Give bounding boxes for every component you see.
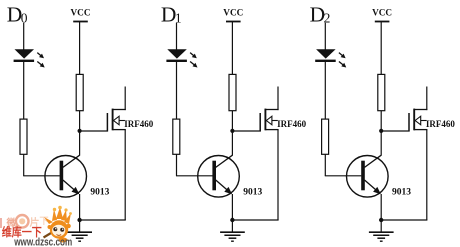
wire node A3 to Q3 collector xyxy=(380,131,382,156)
resistor (VCC branch) xyxy=(76,74,83,110)
svg-text:IRF460: IRF460 xyxy=(277,119,306,129)
svg-text:VCC: VCC xyxy=(71,7,91,17)
MOSFET IRF460 gate bar xyxy=(259,113,261,132)
node B2 junction dot xyxy=(230,218,234,222)
wire drain stub xyxy=(277,87,279,111)
wire resistor to Q3 base xyxy=(324,154,326,176)
svg-text:VCC: VCC xyxy=(372,7,392,17)
wire LED cathode to resistor xyxy=(324,62,326,119)
LED D2 xyxy=(316,49,336,58)
wire Q1 emitter to node B1 xyxy=(79,194,81,220)
MOSFET IRF460 gate bar xyxy=(106,113,108,132)
wire resistor to node A1 xyxy=(79,111,81,131)
node B1 junction dot xyxy=(77,218,81,222)
wire gate lead xyxy=(381,130,409,132)
wire source down xyxy=(277,130,279,220)
LED D1 xyxy=(167,49,187,58)
wire source down xyxy=(124,130,126,220)
Q2 emitter lead with arrow xyxy=(216,180,232,194)
wire source return to emitter node xyxy=(80,219,126,221)
wire D1 anode xyxy=(176,23,178,50)
MOSFET IRF460 channel bar xyxy=(112,109,114,131)
svg-text:IRF460: IRF460 xyxy=(124,119,153,129)
Q3 base bar xyxy=(361,161,365,191)
MOSFET source lead xyxy=(265,129,278,131)
resistor (VCC branch) xyxy=(378,74,385,110)
LED D0 xyxy=(15,49,35,58)
wire VCC to resistor xyxy=(79,22,81,75)
wire gate lead xyxy=(232,130,260,132)
wire Q2 emitter to node B2 xyxy=(231,194,233,220)
wire node A2 to Q2 collector xyxy=(231,131,233,156)
wire resistor to Q2 base xyxy=(176,154,178,176)
MOSFET IRF460 channel bar xyxy=(264,109,266,131)
MOSFET source lead xyxy=(414,129,427,131)
svg-text:IRF460: IRF460 xyxy=(426,119,455,129)
wire source return to emitter node xyxy=(232,219,278,221)
ground xyxy=(79,220,81,232)
transistor Q1 9013 body xyxy=(45,156,87,198)
watermark faint upper row xyxy=(0,215,49,230)
wire D2 anode xyxy=(324,23,326,50)
svg-text:9013: 9013 xyxy=(392,188,411,198)
MOSFET body arrow xyxy=(119,120,125,122)
wire node A1 to Q1 collector xyxy=(79,131,81,156)
wire LED cathode to resistor xyxy=(176,62,178,119)
svg-text:9013: 9013 xyxy=(90,188,109,198)
Q3 emitter lead with arrow xyxy=(365,180,381,194)
wire resistor to node A2 xyxy=(231,111,233,131)
MOSFET body arrow xyxy=(421,120,427,122)
MOSFET drain lead xyxy=(265,109,278,111)
LED D0 light emission arrows xyxy=(37,53,42,57)
Q1 collector lead xyxy=(63,155,80,167)
Q2 base bar xyxy=(212,161,216,191)
resistor (base branch) xyxy=(173,119,180,154)
MOSFET drain lead xyxy=(113,109,126,111)
wire resistor to Q1 base xyxy=(23,154,25,176)
MOSFET body arrow xyxy=(272,120,278,122)
wire gate lead xyxy=(80,130,108,132)
resistor (base branch) xyxy=(322,119,329,154)
transistor Q2 9013 body xyxy=(198,156,240,198)
svg-text:2: 2 xyxy=(324,11,331,26)
wire resistor to node A3 xyxy=(380,111,382,131)
resistor (VCC branch) xyxy=(229,74,236,110)
svg-text:VCC: VCC xyxy=(223,7,243,17)
wire VCC to resistor xyxy=(380,22,382,75)
node A2 junction dot xyxy=(230,129,234,133)
MOSFET drain lead xyxy=(414,109,427,111)
node A1 junction dot xyxy=(78,129,82,133)
Q3 collector lead xyxy=(365,155,382,167)
LED D2 light emission arrows xyxy=(339,53,344,57)
LED D1 light emission arrows xyxy=(190,53,195,57)
wire source return to emitter node xyxy=(381,219,427,221)
MOSFET source lead xyxy=(113,129,126,131)
wire drain stub xyxy=(124,87,126,111)
watermark mascot xyxy=(44,206,72,243)
node A3 junction dot xyxy=(379,129,383,133)
Q1 base bar xyxy=(60,161,64,191)
wire LED cathode to resistor xyxy=(23,62,25,119)
wire drain stub xyxy=(426,87,428,111)
transistor Q3 9013 body xyxy=(347,156,389,198)
watermark mascot pencil xyxy=(44,227,62,238)
node B3 junction dot xyxy=(379,218,383,222)
svg-text:www.dzsc.com: www.dzsc.com xyxy=(13,237,72,247)
Q1 emitter lead with arrow xyxy=(63,180,79,194)
MOSFET IRF460 channel bar xyxy=(413,109,415,131)
wire Q3 emitter to node B3 xyxy=(380,194,382,220)
wire VCC to resistor xyxy=(231,22,233,75)
wire source down xyxy=(426,130,428,220)
ground xyxy=(380,220,382,232)
wire D0 anode xyxy=(23,23,25,50)
Q2 collector lead xyxy=(216,155,233,167)
ground xyxy=(231,220,233,232)
MOSFET IRF460 gate bar xyxy=(408,113,410,132)
resistor (base branch) xyxy=(20,119,27,154)
svg-text:9013: 9013 xyxy=(243,188,262,198)
